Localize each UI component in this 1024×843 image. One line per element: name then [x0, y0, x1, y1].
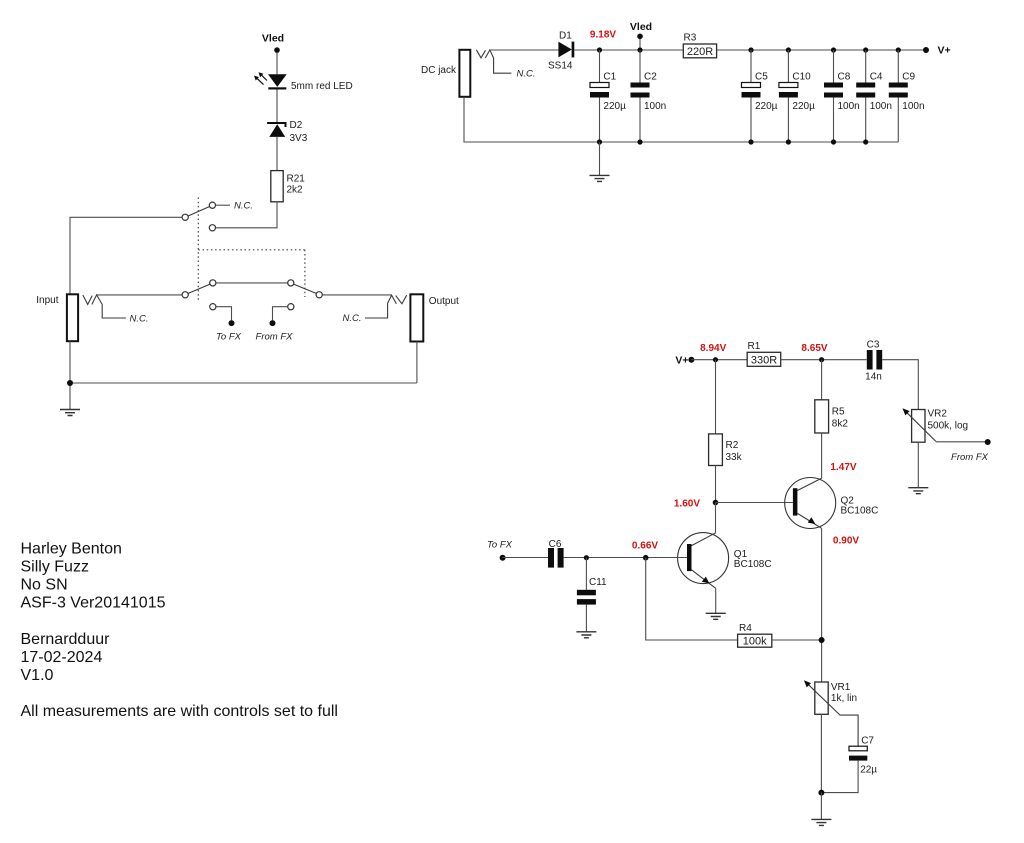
wire R4 to emitter node	[772, 639, 822, 641]
svg-text:8.65V: 8.65V	[801, 343, 827, 354]
svg-text:D1: D1	[559, 31, 572, 42]
potentiometer VR2 500k log	[912, 410, 925, 443]
svg-text:C1: C1	[603, 72, 616, 83]
svg-text:R5: R5	[832, 407, 845, 418]
svg-text:33k: 33k	[726, 452, 743, 463]
switch SW1c lever	[294, 284, 316, 293]
ground (VR2)	[908, 488, 928, 494]
svg-text:V+: V+	[675, 354, 688, 366]
svg-text:Silly Fuzz: Silly Fuzz	[21, 559, 89, 576]
svg-text:220µ: 220µ	[603, 101, 626, 112]
wire 0.66V node down to R4	[646, 558, 738, 640]
svg-text:1.60V: 1.60V	[674, 498, 700, 509]
svg-text:SS14: SS14	[548, 61, 573, 72]
svg-text:C9: C9	[902, 72, 915, 83]
svg-text:1k, lin: 1k, lin	[831, 693, 857, 704]
capacitor C3 14n	[867, 350, 873, 370]
wire R2 to 1.60V node	[715, 466, 717, 503]
wire Q1 emitter to ground	[715, 588, 717, 613]
wire to ground	[820, 793, 822, 820]
svg-text:5mm red LED: 5mm red LED	[291, 81, 353, 92]
switch SW1a pole wire from input	[70, 217, 182, 294]
svg-text:C5: C5	[755, 72, 768, 83]
svg-text:2k2: 2k2	[287, 185, 304, 196]
node V+ (top right)	[923, 47, 929, 53]
transistor Q1 BC108C	[678, 533, 729, 584]
ground (power)	[590, 175, 610, 181]
zener D2 3V3	[267, 123, 285, 127]
node 0.66V	[643, 555, 649, 561]
svg-text:DC jack: DC jack	[421, 65, 457, 76]
svg-text:R1: R1	[748, 341, 761, 352]
wire C3 to VR2	[882, 360, 918, 410]
svg-text:ASF-3 Ver20141015: ASF-3 Ver20141015	[21, 595, 166, 612]
svg-text:VR1: VR1	[831, 682, 851, 693]
svg-text:C4: C4	[870, 72, 883, 83]
svg-text:100n: 100n	[838, 101, 860, 112]
svg-text:220µ: 220µ	[755, 101, 778, 112]
ground (C11)	[576, 632, 596, 638]
wire jack to D1	[490, 49, 559, 51]
wire R1 to C3	[781, 359, 867, 361]
svg-text:330R: 330R	[751, 354, 777, 366]
svg-text:From FX: From FX	[256, 332, 294, 343]
svg-text:Vled: Vled	[630, 21, 652, 33]
svg-text:8k2: 8k2	[832, 419, 849, 430]
node R4/VR1 junction	[819, 637, 825, 643]
wire C11 to ground	[585, 605, 587, 632]
LED D3 5mm red	[268, 74, 287, 87]
resistor R5 8k2	[815, 400, 829, 433]
input jack tip contact symbol	[83, 295, 126, 318]
switch SW1b lever	[188, 284, 210, 293]
wire input tip to SW1b pole	[97, 294, 183, 296]
svg-text:1.47V: 1.47V	[830, 462, 856, 473]
svg-text:BC108C: BC108C	[841, 506, 879, 517]
wire to ground symbol	[599, 142, 601, 175]
svg-text:17-02-2024: 17-02-2024	[21, 649, 103, 666]
node 8.94V	[713, 357, 718, 362]
ground rail (bypass)	[70, 341, 417, 409]
wire To FX to C6	[503, 557, 548, 559]
capacitor C2 100n	[639, 50, 641, 142]
svg-text:R4: R4	[739, 623, 752, 634]
svg-text:500k, log: 500k, log	[928, 421, 969, 432]
dotted linkage lines	[197, 198, 199, 302]
svg-text:To FX: To FX	[487, 540, 513, 551]
svg-text:0.90V: 0.90V	[833, 536, 859, 547]
svg-text:All measurements are with cont: All measurements are with controls set t…	[21, 703, 338, 720]
svg-text:0.66V: 0.66V	[632, 540, 658, 551]
svg-text:Bernardduur: Bernardduur	[21, 631, 111, 648]
output jack J2	[410, 294, 423, 341]
ground (VR1)	[811, 819, 831, 825]
node ground junction	[67, 380, 73, 386]
svg-text:C10: C10	[792, 72, 811, 83]
wire Q2 emitter down	[821, 528, 823, 682]
resistor R3 220R	[683, 44, 716, 58]
node From FX	[270, 320, 276, 326]
junction dots on top rail	[597, 47, 602, 52]
switch SW1a lever	[188, 207, 210, 217]
node VR1/C7 junction	[818, 790, 824, 796]
svg-text:100n: 100n	[870, 101, 892, 112]
resistor R2 33k	[709, 434, 723, 466]
node 1.60V	[713, 500, 719, 506]
LED emission arrows	[261, 74, 268, 80]
wire SW1c pole to output jack	[322, 294, 391, 296]
junction dots on bottom rail	[597, 139, 602, 144]
svg-text:From FX: From FX	[951, 452, 989, 463]
switch SW1b throw	[210, 280, 216, 286]
svg-text:V1.0: V1.0	[21, 667, 54, 684]
diode D1 SS14	[558, 42, 571, 58]
node 8.65V	[819, 357, 824, 362]
capacitor C10 220µ	[787, 50, 789, 142]
wire R3 to V+	[717, 49, 926, 51]
ground (input)	[60, 410, 80, 416]
svg-text:220µ: 220µ	[792, 101, 815, 112]
switch SW1a throw 2	[209, 225, 215, 231]
switch SW1c pole	[316, 292, 322, 298]
svg-text:100n: 100n	[644, 101, 666, 112]
node From FX (amp)	[985, 439, 991, 445]
svg-text:220R: 220R	[687, 46, 713, 58]
wiper wire to From FX	[936, 441, 988, 443]
svg-text:R3: R3	[684, 33, 697, 44]
svg-text:100k: 100k	[743, 635, 767, 647]
resistor R1 330R	[747, 352, 781, 366]
wire VR1 bottom to ground node	[820, 714, 822, 792]
output jack tip contact symbol	[365, 295, 407, 318]
svg-text:C6: C6	[549, 539, 562, 550]
wire between throws	[216, 282, 288, 284]
svg-text:C2: C2	[644, 72, 657, 83]
svg-text:Input: Input	[36, 295, 58, 306]
svg-text:V+: V+	[938, 45, 951, 57]
wire node down to Q1 collector	[715, 503, 717, 533]
capacitor C5 220µ	[750, 50, 752, 142]
potentiometer VR1 1k lin	[815, 682, 828, 714]
svg-text:C3: C3	[867, 340, 880, 351]
capacitor C9 100n	[897, 50, 899, 142]
switch SW1a throw 1 (N.C.)	[209, 202, 215, 208]
wire C6 to Q1 base	[564, 557, 687, 559]
svg-text:To FX: To FX	[216, 332, 242, 343]
svg-text:N.C.: N.C.	[234, 201, 253, 212]
wire DC jack to ground rail	[464, 97, 898, 142]
capacitor C11	[585, 558, 587, 590]
svg-text:Harley Benton: Harley Benton	[21, 541, 122, 558]
capacitor C1 220µ	[599, 50, 601, 142]
switch SW1b lower throw to To FX	[210, 304, 216, 310]
node C11 junction	[584, 555, 589, 560]
wire output jack to ground rail	[416, 342, 418, 384]
node To FX (amp input)	[500, 555, 506, 561]
DC jack J3	[459, 50, 470, 97]
wire R5 to Q2 collector	[821, 433, 823, 478]
wire V+ node to R2	[715, 360, 717, 434]
wire R21 to switch throw	[216, 202, 278, 228]
svg-text:8.94V: 8.94V	[700, 343, 726, 354]
svg-text:BC108C: BC108C	[734, 559, 772, 570]
wire LED to D2	[276, 90, 278, 124]
svg-text:22µ: 22µ	[860, 765, 877, 776]
resistor R21 2k2	[271, 171, 283, 202]
svg-text:9.18V: 9.18V	[590, 30, 616, 41]
wire D2 to R21	[276, 137, 278, 171]
svg-text:14n: 14n	[865, 372, 882, 383]
capacitor C8 100n	[833, 50, 835, 142]
svg-text:N.C.: N.C.	[130, 314, 149, 325]
svg-text:C7: C7	[861, 736, 874, 747]
wire C7 to ground node	[821, 761, 858, 793]
switch SW1b pole	[182, 292, 188, 298]
switch SW1a pole	[182, 214, 188, 220]
capacitor C4 100n	[865, 50, 867, 142]
svg-text:D2: D2	[290, 120, 303, 131]
switch SW1c throw	[288, 280, 294, 286]
svg-text:No SN: No SN	[21, 577, 68, 594]
svg-text:C11: C11	[589, 577, 607, 588]
wire D1 to R3	[574, 49, 683, 51]
wire node to Q2 base	[716, 502, 793, 504]
ground (Q1)	[706, 613, 726, 619]
svg-text:VR2: VR2	[928, 409, 948, 420]
svg-text:N.C.: N.C.	[343, 313, 362, 324]
node To FX	[229, 320, 235, 326]
svg-text:Output: Output	[429, 296, 459, 307]
wire 8.65V node to R5	[821, 360, 823, 400]
DC jack tip contact symbol	[476, 50, 511, 73]
capacitor C7 22µ	[849, 746, 867, 751]
wire V+ to R1	[691, 359, 747, 361]
svg-text:100n: 100n	[902, 101, 924, 112]
svg-text:3V3: 3V3	[290, 133, 308, 144]
wire Vled to LED	[276, 53, 278, 74]
capacitor C6	[548, 548, 554, 568]
resistor R4 100k	[738, 634, 772, 647]
node Vled (power rail stub)	[639, 36, 641, 50]
svg-text:C8: C8	[838, 72, 851, 83]
svg-text:R2: R2	[726, 440, 739, 451]
svg-text:R21: R21	[287, 174, 306, 185]
svg-text:N.C.: N.C.	[517, 69, 536, 80]
wire VR2 to ground	[917, 442, 919, 488]
transistor Q2 BC108C	[785, 478, 836, 529]
svg-text:Vled: Vled	[262, 33, 284, 45]
switch SW1c lower throw from From FX	[288, 304, 294, 310]
